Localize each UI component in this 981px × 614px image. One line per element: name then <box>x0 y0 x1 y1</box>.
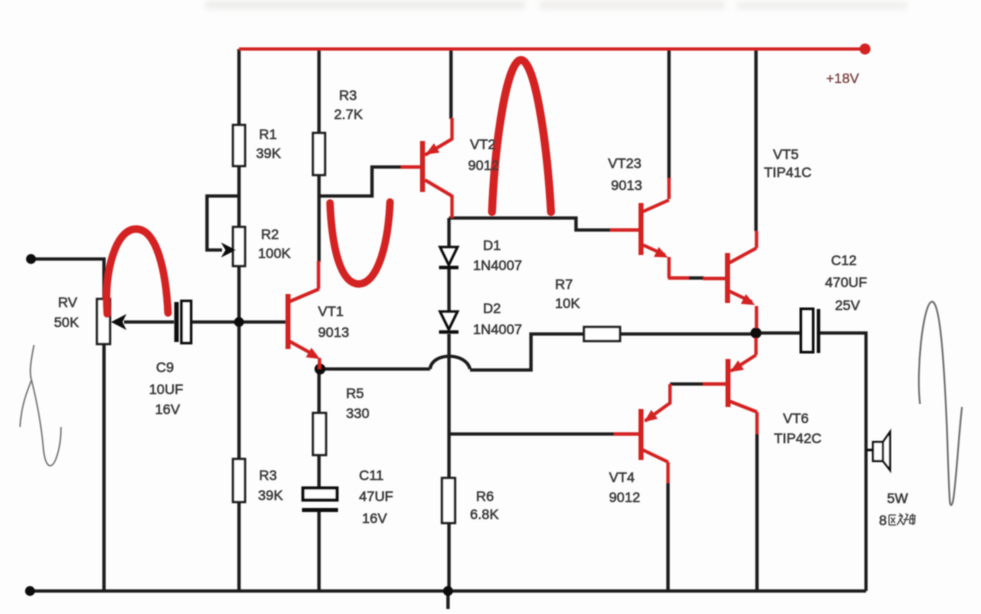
arrow VT2 emitter <box>426 143 440 154</box>
wire VT2 lower to D1 corner <box>447 218 450 247</box>
arrow VT6 emitter <box>730 360 744 372</box>
svg-text:VT2: VT2 <box>470 136 496 152</box>
ground rail <box>30 589 866 592</box>
svg-text:TIP41C: TIP41C <box>764 164 811 180</box>
faint top smudge <box>205 1 907 9</box>
svg-text:100K: 100K <box>258 245 291 261</box>
svg-text:50K: 50K <box>54 314 80 330</box>
wire C12 to speaker column <box>820 333 866 591</box>
svg-text:RV: RV <box>58 294 78 310</box>
node A junction <box>234 317 244 327</box>
wire node A to VT1 base <box>239 320 286 323</box>
wire hop over D column <box>430 356 470 369</box>
wire D2 down through hop <box>447 334 450 478</box>
wire rail to R1 <box>237 49 240 125</box>
capacitor C9 plate- <box>174 302 179 342</box>
wire node B to VT2 base <box>319 167 401 196</box>
svg-text:D2: D2 <box>483 300 501 316</box>
svg-text:TIP42C: TIP42C <box>774 430 821 446</box>
wire D column to VT4 base <box>449 432 614 435</box>
node ground left terminal <box>25 586 35 596</box>
resistor R1 39K <box>233 125 245 166</box>
potentiometer R2 100K body <box>233 227 245 266</box>
resistor R3 39K <box>233 459 245 502</box>
wire input to RV <box>31 259 104 299</box>
transistor VT2 9012 leads <box>420 141 425 192</box>
wire C9 to node A <box>191 320 239 323</box>
node +18V terminal <box>860 44 871 55</box>
wire VT6 base black seg <box>670 382 704 385</box>
capacitor C11 plate+ <box>303 488 337 500</box>
svg-text:10UF: 10UF <box>149 381 183 397</box>
wire node A to R3b <box>237 322 240 459</box>
svg-text:10K: 10K <box>555 295 581 311</box>
svg-text:VT1: VT1 <box>318 303 344 319</box>
capacitor C12 plate- <box>817 309 821 353</box>
wire R3 to node B <box>317 175 320 196</box>
transistor VT4 9012 leads <box>639 409 644 460</box>
arrow VT1 emitter <box>306 348 320 359</box>
diode D1 1N4007 <box>440 247 458 265</box>
wire rail to VT5 collector <box>754 49 757 231</box>
wire C11 to ground <box>317 511 320 591</box>
svg-text:VT23: VT23 <box>608 155 642 171</box>
svg-text:9012: 9012 <box>609 489 640 505</box>
wire VT2 emitter top column <box>449 49 452 119</box>
wire R6 to ground <box>447 523 450 591</box>
transistor VT6 TIP42C leads <box>726 359 731 407</box>
potentiometer RV 50K body <box>97 299 110 344</box>
svg-text:39K: 39K <box>256 145 282 161</box>
transistor VT23 9013 leads <box>639 203 644 255</box>
node VT1 emitter <box>315 364 326 375</box>
capacitor C11 plate- <box>302 508 338 512</box>
svg-text:R7: R7 <box>555 276 573 292</box>
svg-text:R3: R3 <box>259 467 277 483</box>
svg-text:C9: C9 <box>156 359 174 375</box>
svg-text:R5: R5 <box>346 385 364 401</box>
svg-text:25V: 25V <box>835 297 861 313</box>
wire rail to R3 <box>317 49 320 133</box>
wire VT1 emitter to R5 <box>317 369 320 413</box>
svg-text:VT4: VT4 <box>609 469 635 485</box>
node input terminal <box>26 254 36 264</box>
svg-text:5W: 5W <box>887 490 909 506</box>
arrow VT4 emitter <box>644 410 658 422</box>
speaker 5W body <box>866 449 873 452</box>
svg-text:8: 8 <box>879 512 887 528</box>
svg-text:D1: D1 <box>483 237 501 253</box>
svg-text:R2: R2 <box>261 226 279 242</box>
wire R7 to output node <box>620 332 756 335</box>
svg-text:VT6: VT6 <box>783 410 809 426</box>
wire D1 to D2 <box>447 269 450 311</box>
svg-text:+18V: +18V <box>826 70 860 86</box>
wire RV bottom to ground <box>102 344 105 591</box>
resistor R5 330 <box>313 413 326 455</box>
wire output node to C12 <box>756 331 801 334</box>
wire R3b to ground <box>237 502 240 591</box>
svg-text:39K: 39K <box>258 487 284 503</box>
svg-text:6.8K: 6.8K <box>470 506 499 522</box>
wire R2 feedback loop <box>207 196 239 250</box>
svg-text:1N4007: 1N4007 <box>473 321 522 337</box>
arrow VT5 emitter <box>741 294 755 305</box>
svg-text:9012: 9012 <box>468 157 499 173</box>
resistor R6 6.8K <box>442 478 455 523</box>
wire wiper to C9 <box>124 320 174 323</box>
marker arch at VT2 <box>492 60 551 212</box>
wire +18V rail <box>239 47 865 50</box>
svg-text:R1: R1 <box>259 126 277 142</box>
arrow R2 wiper <box>221 243 236 258</box>
svg-text:16V: 16V <box>362 510 388 526</box>
wire VT23 emitter to VT5 base <box>688 276 704 279</box>
transistor VT1 9013 leads <box>286 294 291 349</box>
arrow RV wiper <box>111 314 127 330</box>
label 8-ohm CJK glyphs <box>889 514 915 526</box>
svg-text:VT5: VT5 <box>773 146 799 162</box>
svg-text:C12: C12 <box>831 252 857 268</box>
wire R5 to C11 <box>317 455 320 488</box>
wire VT2 to VT23 base <box>449 218 611 230</box>
wire rail to VT23 collector <box>667 49 670 179</box>
sine output sketch <box>919 302 962 505</box>
resistor R7 10K horizontal <box>584 327 620 341</box>
arrow VT23 emitter <box>654 247 668 258</box>
wire VT4 collector to ground <box>666 483 669 591</box>
marker arc over C9 <box>107 229 168 314</box>
transistor VT5 TIP41C leads <box>725 253 730 303</box>
capacitor C9 plate+ <box>182 301 192 343</box>
wire R1 to R2 <box>237 166 240 227</box>
svg-text:16V: 16V <box>155 401 181 417</box>
svg-text:9013: 9013 <box>318 324 349 340</box>
wire node B to VT1 collector <box>317 196 320 262</box>
marker U near VT1 <box>330 202 390 284</box>
svg-text:1N4007: 1N4007 <box>473 257 522 273</box>
wire hop to R7 step <box>470 334 584 370</box>
sine input sketch <box>20 345 61 466</box>
capacitor C12 plate+ <box>801 309 813 352</box>
wire R2 to node A <box>237 266 240 322</box>
diode D2 1N4007 <box>440 312 458 330</box>
svg-text:470UF: 470UF <box>825 274 867 290</box>
svg-text:9013: 9013 <box>611 177 642 193</box>
svg-text:R3: R3 <box>339 87 357 103</box>
svg-text:47UF: 47UF <box>359 488 393 504</box>
svg-text:2.7K: 2.7K <box>334 106 363 122</box>
wire ground stub below R6 <box>446 591 449 609</box>
svg-text:C11: C11 <box>359 467 384 483</box>
wire VT6 collector to ground <box>755 434 758 591</box>
svg-text:330: 330 <box>346 405 370 421</box>
resistor R3 2.7K <box>313 133 325 175</box>
wire VT1 emitter to hop <box>320 367 430 370</box>
svg-text:R6: R6 <box>476 488 494 504</box>
node ground R6 <box>443 586 453 596</box>
node output <box>751 328 762 339</box>
